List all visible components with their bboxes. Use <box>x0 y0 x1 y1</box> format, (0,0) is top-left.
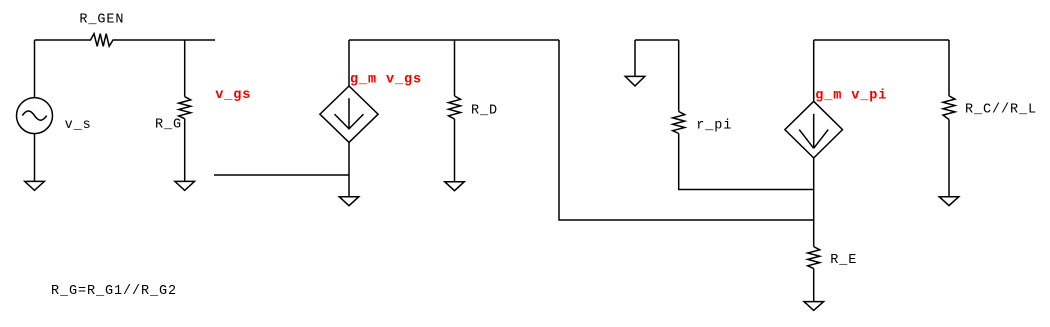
wire source reference <box>214 174 349 176</box>
resistor R_E <box>808 247 820 269</box>
wire R_C//R_L bottom lead <box>948 120 950 197</box>
wire v_s bottom lead <box>34 134 36 182</box>
wire G2 bottom lead (emitter node) <box>813 158 815 247</box>
svg-text:R_D: R_D <box>471 104 498 119</box>
svg-text:R_G: R_G <box>155 118 182 133</box>
wire R_D bottom lead <box>454 119 456 182</box>
resistor R_D <box>449 96 461 119</box>
ground at base <box>625 76 645 86</box>
wire r_pi bottom lead <box>679 134 814 190</box>
arrow of G2 <box>799 114 828 148</box>
wire R_C//R_L top lead <box>948 40 950 96</box>
wire G1 top lead <box>348 40 350 86</box>
arrow of G1 <box>335 98 364 129</box>
ground under v_s <box>25 181 45 190</box>
svg-text:r_pi: r_pi <box>696 119 732 134</box>
svg-text:R_G=R_G1//R_G2: R_G=R_G1//R_G2 <box>51 284 177 299</box>
resistor r_pi <box>673 112 685 134</box>
ground under R_D <box>445 182 465 191</box>
wire G2 top lead <box>813 40 815 101</box>
ground under R_C//R_L <box>939 197 959 206</box>
wire collector rail <box>814 39 949 41</box>
svg-text:v_s: v_s <box>65 118 92 133</box>
ground under R_E <box>804 302 824 311</box>
wire drain rail <box>349 39 559 41</box>
wire R_G top lead <box>184 40 186 97</box>
svg-text:R_E: R_E <box>830 253 857 268</box>
wire base rail <box>635 39 679 41</box>
wire R_D top lead <box>454 40 456 96</box>
ground under G1 <box>339 197 359 206</box>
svg-text:R_GEN: R_GEN <box>79 13 124 28</box>
wire R_G bottom lead <box>184 119 186 182</box>
svg-text:v_gs: v_gs <box>215 88 251 103</box>
wire v_s top lead <box>34 40 36 98</box>
svg-text:g_m v_pi: g_m v_pi <box>815 88 887 103</box>
controlled source G2 g_m v_pi <box>785 101 843 158</box>
wire G1 bottom lead <box>348 142 350 196</box>
wire R_E bottom lead <box>813 269 815 302</box>
wire r_pi top lead <box>678 40 680 112</box>
resistor R_G <box>179 97 191 119</box>
voltage source v_s <box>17 98 53 134</box>
wire base ground stub <box>634 40 636 76</box>
wire top-left rail with resistor R_GEN <box>35 34 216 47</box>
svg-text:R_C//R_L: R_C//R_L <box>965 103 1037 118</box>
wire interstage link <box>559 40 814 220</box>
controlled source G1 g_m v_gs <box>320 86 378 142</box>
resistor R_C//R_L <box>943 96 955 120</box>
ground under R_G <box>175 181 195 190</box>
svg-text:g_m v_gs: g_m v_gs <box>350 73 422 88</box>
